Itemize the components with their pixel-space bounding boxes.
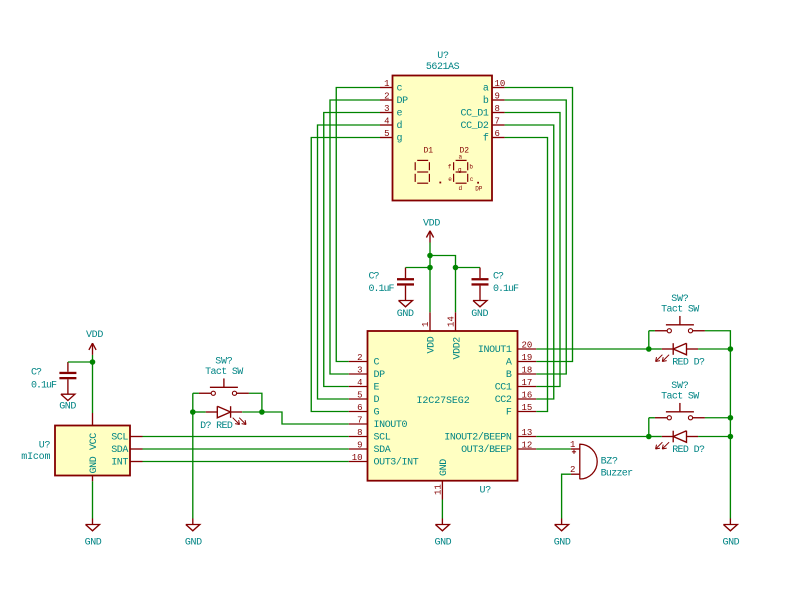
svg-text:17: 17 — [522, 378, 533, 388]
IC pin 19 (A) right — [506, 353, 536, 369]
svg-text:BZ?: BZ? — [601, 457, 618, 468]
svg-text:C?: C? — [493, 271, 504, 282]
svg-text:INT: INT — [111, 458, 128, 469]
svg-text:VDD: VDD — [426, 336, 437, 353]
IC pin 15 (F) right — [506, 403, 536, 419]
IC pin 8 (SCL) left — [349, 428, 391, 444]
svg-text:SDA: SDA — [111, 445, 128, 456]
svg-text:7: 7 — [357, 416, 362, 426]
wire display CC_D1 pin8 to IC pin17 CC1 — [505, 113, 560, 387]
svg-text:2: 2 — [570, 465, 575, 475]
junction right cap tap — [453, 265, 459, 271]
wire left switch left side down — [192, 393, 194, 412]
svg-text:Buzzer: Buzzer — [601, 469, 634, 480]
switch SW? (left) Tact SW — [199, 356, 249, 395]
svg-text:SCL: SCL — [111, 433, 128, 444]
svg-text:12: 12 — [522, 441, 533, 451]
wire IC pin12 OUT3/BEEP to buzzer pin1 — [536, 448, 571, 450]
svg-text:D1: D1 — [424, 146, 434, 155]
IC pin 4 (E) left — [349, 378, 380, 394]
junction left cap tap — [427, 265, 433, 271]
LED D? RED (top right) — [656, 343, 705, 368]
junction left LED left — [190, 409, 196, 415]
svg-text:d: d — [397, 120, 403, 132]
svg-text:0.1uF: 0.1uF — [493, 284, 519, 295]
wire display c pin1 to IC pin2 C — [336, 88, 380, 362]
ground below C? (right of VDD) — [471, 301, 488, 320]
svg-text:Tact SW: Tact SW — [661, 391, 699, 402]
svg-text:CC_D1: CC_D1 — [460, 109, 488, 120]
wire mIcom SCL to IC pin8 SCL — [143, 436, 349, 438]
svg-text:g: g — [458, 166, 462, 173]
IC pin 3 (DP) left — [349, 366, 385, 382]
mIcom pin SCL right — [111, 433, 142, 444]
IC pin 5 (D) left — [349, 391, 380, 407]
svg-text:c: c — [470, 176, 474, 183]
svg-text:5: 5 — [357, 391, 362, 401]
wire lower right switch left side down — [648, 418, 650, 437]
svg-text:b: b — [483, 95, 489, 107]
svg-text:5621AS: 5621AS — [426, 62, 460, 73]
display pin 10 (a) right — [492, 79, 505, 89]
svg-text:B: B — [506, 370, 512, 381]
junction lower right LED rail — [728, 434, 734, 440]
IC pin 13 (INOUT2/BEEPN) right — [444, 428, 536, 444]
wire lower right LED to rail — [698, 436, 730, 438]
wire left switch right side down — [249, 393, 262, 412]
svg-text:f: f — [483, 133, 489, 145]
wire green stub left of lower right LED — [649, 436, 662, 438]
svg-text:OUT3/INT: OUT3/INT — [374, 457, 419, 469]
wire left block to IC pin7 INOUT0 — [262, 412, 349, 424]
junction top right LED right rail — [728, 346, 734, 352]
ground under left switch — [185, 519, 202, 549]
wire top right switch left side down — [649, 330, 655, 332]
wire right cap to pin14 branch — [456, 267, 481, 269]
wire IC pin20 INOUT1 to right switch block — [536, 348, 649, 350]
junction top right LED left — [646, 346, 652, 352]
mIcom pin INT right — [111, 458, 142, 469]
wire display f pin6 to IC pin15 F — [505, 138, 548, 412]
svg-text:8: 8 — [357, 428, 362, 438]
IC pin 16 (CC2) right — [495, 391, 537, 407]
wire top right switch right side to rail — [705, 331, 731, 349]
svg-text:SDA: SDA — [374, 445, 391, 456]
svg-text:U?: U? — [480, 485, 492, 496]
svg-text:D: D — [374, 395, 380, 406]
svg-text:3: 3 — [357, 366, 362, 376]
wire display b pin9 to IC pin18 B — [505, 100, 567, 374]
IC pin 17 (CC1) right — [495, 378, 537, 394]
buzzer BZ? — [570, 440, 633, 480]
junction lower right switch rail — [728, 415, 734, 421]
svg-text:GND: GND — [554, 537, 571, 548]
svg-text:a: a — [483, 84, 489, 95]
svg-text:4: 4 — [357, 378, 362, 388]
display pin 8 (CC_D1) right — [492, 104, 505, 114]
svg-text:GND: GND — [85, 537, 102, 548]
svg-text:VDD2: VDD2 — [453, 337, 464, 360]
svg-text:11: 11 — [433, 484, 443, 495]
capacitor C? (left of VDD) 0.1uF — [369, 268, 415, 301]
svg-text:9: 9 — [495, 92, 500, 102]
ground under IC pin11 — [434, 519, 451, 549]
svg-text:1: 1 — [421, 322, 431, 327]
power VDD symbol — [423, 219, 440, 243]
display pin 9 (b) right — [492, 92, 505, 102]
ground right rail — [722, 519, 739, 549]
ground under mIcom — [85, 519, 102, 549]
svg-text:U?: U? — [39, 441, 51, 452]
svg-text:19: 19 — [522, 353, 533, 363]
display pin 2 (DP) left — [380, 92, 393, 102]
wire lower right switch right side to rail — [705, 417, 731, 419]
power VDD symbol — [86, 330, 103, 355]
mIcom pin VCC top — [89, 413, 100, 450]
svg-text:8: 8 — [495, 104, 500, 114]
svg-text:VDD: VDD — [86, 330, 103, 341]
svg-text:INOUT0: INOUT0 — [374, 420, 408, 431]
svg-text:7: 7 — [495, 117, 500, 127]
svg-text:GND: GND — [434, 537, 451, 548]
svg-text:GND: GND — [439, 459, 450, 476]
svg-text:A: A — [506, 358, 512, 369]
svg-text:0.1uF: 0.1uF — [369, 284, 395, 295]
IC pin 14 (VDD2) top — [447, 312, 464, 359]
svg-text:DP: DP — [374, 370, 386, 381]
svg-text:SW?: SW? — [671, 381, 689, 392]
display pin 6 (f) right — [492, 129, 505, 139]
wire VDD junction down to IC pin1 — [429, 256, 431, 313]
wire display a pin10 to IC pin19 A — [505, 88, 573, 362]
svg-text:e: e — [397, 109, 403, 120]
svg-text:G: G — [374, 408, 380, 419]
svg-text:g: g — [397, 134, 403, 145]
ground below C? (left of VDD) — [397, 301, 414, 320]
svg-text:Tact SW: Tact SW — [661, 304, 699, 315]
svg-text:a: a — [458, 154, 462, 161]
svg-text:CC1: CC1 — [495, 383, 512, 394]
svg-text:C: C — [374, 358, 380, 369]
ground below C? (left, by mIcom) — [59, 394, 76, 412]
display pin 4 (d) left — [380, 117, 393, 127]
svg-text:SCL: SCL — [374, 433, 391, 444]
svg-text:1: 1 — [384, 79, 389, 89]
svg-text:d: d — [458, 185, 462, 192]
IC pin 6 (G) left — [349, 403, 380, 419]
wire green stub left of left LED — [193, 411, 206, 413]
wire display g pin5 to IC pin6 G — [311, 138, 380, 412]
wire right rail down — [729, 349, 731, 519]
switch SW? (top right) Tact SW — [655, 294, 705, 333]
connector U? mIcom body — [55, 426, 130, 476]
wire display e pin3 to IC pin4 E — [324, 113, 380, 387]
wire green stub left of top right LED — [649, 348, 662, 350]
wire buzzer pin2 to ground — [562, 474, 571, 518]
junction left LED right — [259, 409, 265, 415]
svg-text:E: E — [374, 383, 380, 394]
IC pin 10 (OUT3/INT) left — [349, 453, 419, 469]
svg-text:2: 2 — [357, 353, 362, 363]
wire left LED to corner — [242, 411, 262, 413]
IC pin 2 (C) left — [349, 353, 380, 369]
svg-text:3: 3 — [384, 104, 389, 114]
wire top right LED to rail — [698, 348, 730, 350]
svg-text:CC_D2: CC_D2 — [460, 121, 488, 132]
svg-text:CC2: CC2 — [495, 395, 512, 406]
IC pin 9 (SDA) left — [349, 441, 391, 457]
svg-text:5: 5 — [384, 129, 389, 139]
svg-text:18: 18 — [522, 366, 533, 376]
display pin 5 (g) left — [380, 129, 393, 139]
wire left VDD junction to cap — [68, 361, 93, 363]
svg-text:6: 6 — [357, 403, 362, 413]
wire left block down to ground — [192, 412, 194, 519]
IC pin 12 (OUT3/BEEP) right — [461, 441, 536, 457]
display pin 7 (CC_D2) right — [492, 117, 505, 127]
svg-text:10: 10 — [495, 79, 506, 89]
display digit D2 seven-segment glyph with segment letters — [448, 154, 483, 193]
junction lower right LED left — [646, 434, 652, 440]
mIcom pin GND bottom — [89, 456, 100, 481]
svg-text:c: c — [397, 84, 403, 95]
svg-text:15: 15 — [522, 403, 533, 413]
svg-text:e: e — [448, 176, 452, 183]
junction left VDD — [90, 359, 96, 365]
wire VDD symbol to junction — [429, 243, 431, 256]
wire left VDD to junction — [92, 355, 94, 362]
svg-text:6: 6 — [495, 129, 500, 139]
wire IC pin11 down to ground — [441, 500, 443, 519]
display pin 1 (c) left — [380, 79, 393, 89]
wire left cap to VDD net — [406, 267, 431, 269]
switch SW? (bottom right) Tact SW — [655, 381, 705, 420]
svg-text:RED D?: RED D? — [672, 358, 705, 369]
svg-text:GND: GND — [471, 309, 488, 320]
svg-text:VCC: VCC — [89, 433, 100, 450]
wire display CC_D2 pin7 to IC pin16 CC2 — [505, 125, 554, 399]
svg-text:GND: GND — [89, 456, 100, 473]
svg-text:GND: GND — [397, 309, 414, 320]
svg-text:20: 20 — [522, 341, 533, 351]
wire IC pin13 to lower right switch block — [536, 436, 649, 438]
svg-text:Tact SW: Tact SW — [205, 367, 243, 378]
svg-text:9: 9 — [357, 441, 362, 451]
7-segment display U? 5621AS body — [393, 76, 493, 201]
svg-text:10: 10 — [352, 453, 363, 463]
svg-text:13: 13 — [522, 428, 533, 438]
IC pin 7 (INOUT0) left — [349, 416, 408, 432]
svg-text:b: b — [469, 163, 473, 170]
svg-text:GND: GND — [59, 402, 76, 413]
svg-text:4: 4 — [384, 117, 389, 127]
svg-text:SW?: SW? — [215, 356, 233, 367]
svg-text:VDD: VDD — [423, 219, 440, 230]
display digit D1 seven-segment glyph — [415, 160, 441, 183]
wire mIcom INT to IC pin10 OUT3/INT — [143, 461, 349, 463]
svg-text:f: f — [448, 163, 452, 170]
IC pin 1 (VDD) top — [421, 312, 437, 353]
svg-text:16: 16 — [522, 391, 533, 401]
wire display d pin4 to IC pin5 D — [318, 125, 381, 399]
wire mIcom GND pin down — [92, 481, 94, 518]
svg-text:SW?: SW? — [671, 294, 689, 305]
svg-text:GND: GND — [185, 537, 202, 548]
IC pin 20 (INOUT1) right — [478, 341, 536, 357]
svg-text:GND: GND — [722, 537, 739, 548]
svg-text:DP: DP — [397, 96, 409, 107]
svg-text:C?: C? — [369, 271, 380, 282]
IC U? I2C27SEG2 body — [368, 331, 518, 481]
LED D? RED (left) — [200, 406, 246, 432]
display pin 3 (e) left — [380, 104, 393, 114]
svg-text:RED D?: RED D? — [672, 445, 705, 456]
junction VDD split — [427, 253, 433, 259]
wire VDD branch to pin14 — [430, 256, 456, 313]
wire display DP pin2 to IC pin3 DP — [330, 100, 380, 374]
svg-text:U?: U? — [437, 51, 449, 62]
wire mIcom SDA to IC pin9 SDA — [143, 448, 349, 450]
ground under buzzer — [554, 519, 571, 549]
wire left VDD down to mIcom VCC — [92, 362, 94, 413]
mIcom pin SDA right — [111, 445, 142, 456]
svg-text:0.1uF: 0.1uF — [31, 380, 57, 391]
svg-text:D? RED: D? RED — [200, 421, 233, 432]
svg-text:F: F — [506, 408, 512, 419]
svg-text:INOUT2/BEEPN: INOUT2/BEEPN — [444, 432, 512, 444]
svg-text:2: 2 — [384, 92, 389, 102]
capacitor C? (left, by mIcom) 0.1uF — [31, 362, 76, 394]
svg-text:DP: DP — [475, 185, 483, 192]
svg-text:14: 14 — [447, 316, 457, 327]
svg-text:I2C27SEG2: I2C27SEG2 — [417, 396, 470, 407]
svg-text:C?: C? — [31, 368, 42, 379]
svg-text:OUT3/BEEP: OUT3/BEEP — [461, 444, 512, 456]
capacitor C? (right of VDD) 0.1uF — [472, 268, 520, 301]
IC pin 11 (GND) bottom — [433, 459, 450, 500]
svg-text:1: 1 — [570, 440, 575, 450]
LED D? RED (bottom right) — [656, 431, 705, 456]
IC pin 18 (B) right — [506, 366, 536, 382]
svg-text:INOUT1: INOUT1 — [478, 345, 512, 356]
svg-text:mIcom: mIcom — [21, 452, 50, 463]
